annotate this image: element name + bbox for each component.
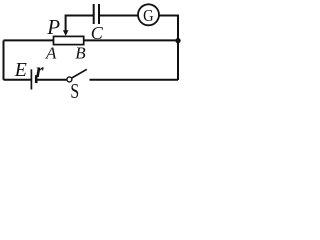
svg-text:r: r xyxy=(36,60,44,82)
svg-text:B: B xyxy=(75,44,86,63)
svg-text:P: P xyxy=(46,15,60,39)
svg-text:E: E xyxy=(14,59,27,81)
svg-text:A: A xyxy=(45,44,57,63)
svg-text:S: S xyxy=(70,79,79,99)
svg-text:G: G xyxy=(143,6,154,25)
svg-text:C: C xyxy=(91,23,104,43)
